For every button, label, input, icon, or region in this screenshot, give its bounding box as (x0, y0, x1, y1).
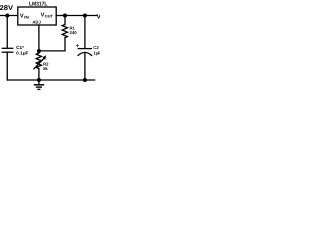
svg-text:LM317L: LM317L (29, 2, 48, 8)
node R2 ground junction (37, 78, 41, 82)
regulator U1 LM317L box (18, 7, 56, 25)
svg-text:OUT: OUT (45, 14, 54, 18)
wire R1 bottom to ADJ node (39, 38, 65, 51)
wire VOUT to output (56, 15, 96, 17)
ground rail (7, 79, 94, 81)
wire R1 top (64, 16, 66, 25)
node VOUT-R1 junction (63, 14, 67, 18)
node ADJ junction (37, 49, 41, 53)
svg-text:ADJ: ADJ (32, 19, 41, 24)
svg-text:28V: 28V (0, 5, 13, 12)
node VOUT-C2 junction (83, 14, 87, 18)
svg-text:240: 240 (70, 30, 78, 35)
wire C2 drop (84, 16, 86, 49)
svg-text:V: V (97, 14, 101, 21)
resistor R2 pot 5k (36, 53, 41, 69)
resistor R1 240 (62, 25, 67, 38)
node input junction (5, 14, 9, 18)
svg-text:C1*: C1* (16, 45, 24, 50)
wire C1 drop (6, 16, 8, 48)
svg-text:1µF: 1µF (93, 51, 100, 56)
svg-text:0.1µF: 0.1µF (16, 50, 29, 55)
capacitor C2 curved plate (78, 53, 92, 56)
svg-text:C2: C2 (93, 45, 99, 50)
svg-text:5k: 5k (43, 66, 48, 71)
wire ADJ pin drop (38, 25, 40, 51)
wire input left to VIN (0, 15, 18, 17)
capacitor C1 (2, 47, 13, 49)
wire C2 bottom (84, 52, 86, 80)
svg-text:IN: IN (24, 15, 29, 19)
pot wiper arrow (34, 58, 44, 69)
wire R2 bottom (38, 69, 40, 80)
node C2 ground junction (83, 78, 87, 82)
capacitor C2 plus plate (78, 48, 91, 50)
ground (34, 80, 44, 89)
